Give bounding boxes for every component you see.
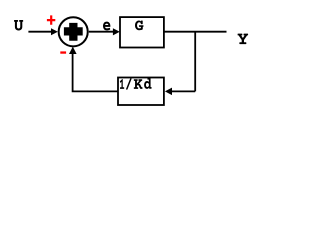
wire branch down from output [194,32,196,92]
block G [120,17,164,47]
block 1/Kd [118,78,164,106]
wire U to summing junction [28,31,52,33]
summing junction cross symbol [64,23,83,41]
minus sign (red) at feedback input [60,51,66,53]
node e label [103,22,110,31]
node U label [14,20,23,31]
plus sign (red) at summing input [47,15,55,24]
wire summing junction to block G [89,31,114,33]
wire branch to block 1/Kd [172,90,196,92]
node Y label [238,34,249,45]
wire block G to output Y [164,31,227,33]
wire block 1/Kd back to summing junction [73,54,118,91]
summing junction circle [59,17,88,46]
